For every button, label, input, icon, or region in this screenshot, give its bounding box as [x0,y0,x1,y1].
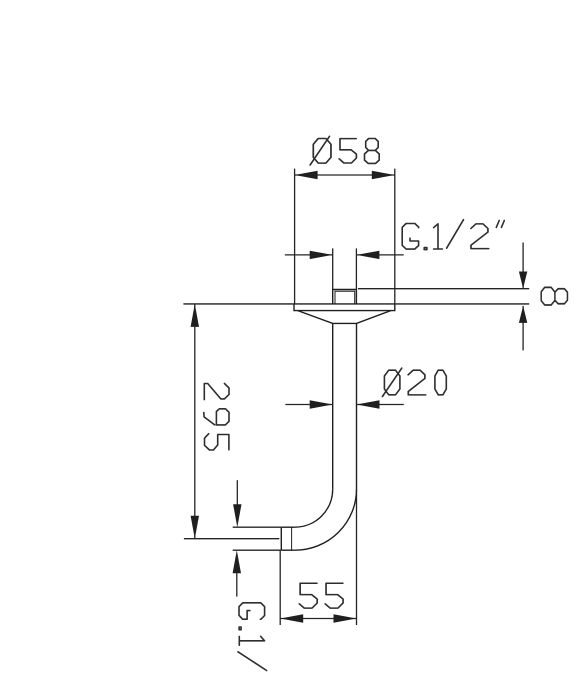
elbow inner arc [295,489,333,527]
dim 8 upper arrow line [522,243,524,289]
flange cone [298,311,391,324]
thread stub inner [335,291,355,304]
elbow outer arc [295,489,357,550]
dim ext line left (58) [294,169,296,304]
spout dim lower arrow [236,573,238,597]
G 1/2 leader right [356,254,403,256]
label 55 [299,583,317,608]
dim ext line (295 bottom) [184,538,279,540]
spout ext line bottom [233,549,282,551]
dim 8 lower arrow line [522,306,524,351]
dim ext line (8, top) [358,288,529,290]
arrowhead 20 right [357,400,380,408]
thread stub outer [333,290,357,304]
dim 20 leader left [285,404,332,406]
pipe right edge [356,323,358,489]
arrowhead 8 down [519,272,527,289]
spout ext line top [233,526,282,528]
dim line 55 [280,618,356,620]
flange plate [294,304,395,311]
pipe left edge [332,323,334,489]
arrowhead 20 left [310,400,333,408]
arrowhead 295 bottom [191,516,199,539]
arrowhead 58 right [372,171,395,179]
dim line 58 [295,174,395,176]
dim ext line 55 left [279,551,281,625]
arrowhead 58 left [295,171,318,179]
arrowhead G12 left [310,251,333,259]
dim ext line right (58) [394,169,396,304]
label diameter 20 [384,370,400,395]
dim ext line 55 right [356,489,358,625]
spout end cap [280,527,282,550]
spout top edge [281,526,294,528]
spout dim upper arrow [236,480,238,505]
arrowhead 295 top [191,304,199,327]
spout bottom edge [281,549,294,551]
arrowhead 55 right [334,614,357,622]
arrowhead G12 right [356,251,379,259]
dim 20 leader right [357,404,404,406]
arrowhead 55 left [280,614,303,622]
label G.1/2" [402,224,418,250]
label 8 (rotated) [541,287,567,305]
ceiling line [183,303,529,305]
dim line 295 [194,304,196,539]
G 1/2 leader left [285,254,333,256]
label 295 (rotated) [204,383,229,399]
arrowhead 8 up [519,306,527,323]
G 1/2 ext lines [333,248,357,289]
label diameter 58 [313,139,331,164]
label G.1/ (rotated, cut off) [239,603,265,619]
